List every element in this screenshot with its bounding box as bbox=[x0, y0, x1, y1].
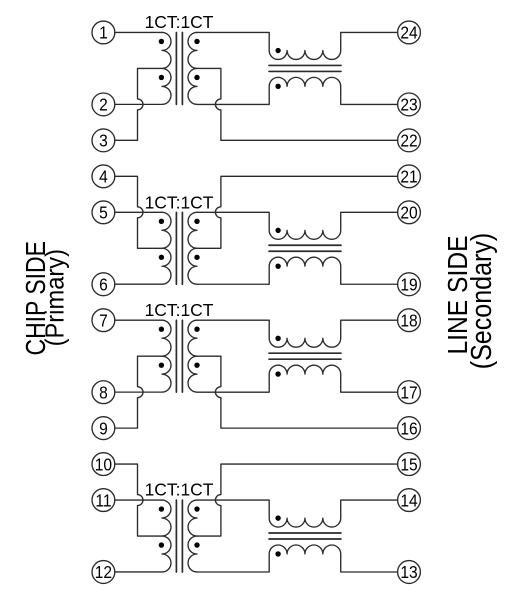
wire primary center tap to pin 3 (hop over pin 2 wire) bbox=[115, 68, 162, 140]
pin 4 bbox=[92, 165, 115, 188]
polarity dot CM2 bottom winding bbox=[275, 263, 280, 268]
svg-text:18: 18 bbox=[400, 311, 417, 331]
svg-text:1CT:1CT: 1CT:1CT bbox=[145, 192, 214, 212]
wire pin 21 to secondary center tap (hop over choke wire) bbox=[197, 176, 398, 248]
polarity dot T1 secondary upper bbox=[194, 39, 199, 44]
wire pin 4 to primary center tap (hop over pin 5 wire) bbox=[115, 176, 162, 248]
choke CM1 top winding with wires to pin 24 bbox=[197, 32, 398, 59]
pin 19 bbox=[398, 273, 421, 296]
svg-text:8: 8 bbox=[99, 383, 108, 403]
svg-text:10: 10 bbox=[95, 454, 112, 474]
polarity dot CM4 top winding bbox=[275, 515, 280, 520]
polarity dot CM3 bottom winding bbox=[275, 371, 280, 376]
svg-text:14: 14 bbox=[400, 490, 417, 510]
polarity dot T1 secondary lower bbox=[194, 75, 199, 80]
transformer T2 primary winding bbox=[115, 212, 171, 284]
polarity dot CM4 bottom winding bbox=[275, 551, 280, 556]
transformer T4 core bbox=[176, 500, 182, 572]
wire primary center tap to pin 9 (hop over pin 8 wire) bbox=[115, 356, 162, 428]
polarity dot T3 primary upper bbox=[159, 327, 164, 332]
wire pin 10 to primary center tap (hop over pin 11 wire) bbox=[115, 464, 162, 536]
svg-text:6: 6 bbox=[99, 275, 108, 295]
polarity dot CM3 top winding bbox=[275, 336, 280, 341]
pin 12 bbox=[92, 561, 115, 584]
pin 24 bbox=[398, 21, 421, 44]
polarity dot CM2 top winding bbox=[275, 228, 280, 233]
choke CM2 bottom winding with wires to pin 19 bbox=[197, 257, 398, 284]
svg-text:1CT:1CT: 1CT:1CT bbox=[145, 12, 214, 32]
svg-text:13: 13 bbox=[400, 562, 417, 582]
choke CM3 top winding with wires to pin 18 bbox=[197, 320, 398, 347]
wire pin 1 to T1 primary top bbox=[115, 31, 162, 33]
svg-text:1CT:1CT: 1CT:1CT bbox=[145, 480, 214, 500]
pin 8 bbox=[92, 381, 115, 404]
svg-text:(Secondary): (Secondary) bbox=[466, 233, 498, 370]
svg-text:4: 4 bbox=[99, 167, 108, 187]
polarity dot T4 secondary upper bbox=[194, 506, 199, 511]
svg-text:15: 15 bbox=[400, 454, 417, 474]
polarity dot T3 secondary upper bbox=[194, 327, 199, 332]
svg-text:19: 19 bbox=[400, 275, 417, 295]
polarity dot CM1 bottom winding bbox=[275, 84, 280, 89]
svg-text:7: 7 bbox=[99, 311, 108, 331]
choke CM1 core bbox=[269, 65, 341, 71]
pin 17 bbox=[398, 381, 421, 404]
svg-text:16: 16 bbox=[400, 418, 417, 438]
pin 18 bbox=[398, 309, 421, 332]
transformer T4 secondary winding bbox=[188, 500, 197, 572]
wire secondary center tap to pin 16 (hop over pin 17 wire) bbox=[197, 356, 398, 428]
wire secondary center tap to pin 22 (hop over pin 23 wire) bbox=[197, 68, 398, 140]
pin 3 bbox=[92, 129, 115, 152]
pin 9 bbox=[92, 417, 115, 440]
svg-text:9: 9 bbox=[99, 418, 108, 438]
pin 15 bbox=[398, 453, 421, 476]
transformer T3 secondary winding bbox=[188, 320, 197, 392]
pin 13 bbox=[398, 561, 421, 584]
pin 11 bbox=[92, 489, 115, 512]
pin 1 bbox=[92, 21, 115, 44]
transformer T4 primary winding bbox=[115, 500, 171, 572]
polarity dot T4 secondary lower bbox=[194, 542, 199, 547]
choke CM2 top winding with wires to pin 20 bbox=[197, 212, 398, 239]
pin 2 bbox=[92, 93, 115, 116]
svg-text:23: 23 bbox=[400, 95, 417, 115]
transformer T3 primary winding bbox=[115, 320, 171, 392]
svg-text:21: 21 bbox=[400, 167, 417, 187]
polarity dot T3 secondary lower bbox=[194, 362, 199, 367]
pin 16 bbox=[398, 417, 421, 440]
polarity dot T2 primary upper bbox=[159, 219, 164, 224]
wire pin 5 to T2 primary top bbox=[115, 211, 162, 213]
svg-text:17: 17 bbox=[400, 383, 417, 403]
svg-text:(Primary): (Primary) bbox=[42, 249, 70, 346]
choke CM3 core bbox=[269, 353, 341, 359]
transformer T1 secondary winding bbox=[188, 32, 197, 104]
pin 23 bbox=[398, 93, 421, 116]
pin 20 bbox=[398, 201, 421, 224]
polarity dot T4 primary upper bbox=[159, 506, 164, 511]
pin 5 bbox=[92, 201, 115, 224]
transformer T3 core bbox=[176, 320, 182, 392]
svg-text:1CT:1CT: 1CT:1CT bbox=[145, 300, 214, 320]
pin 21 bbox=[398, 165, 421, 188]
polarity dot T1 primary upper bbox=[159, 39, 164, 44]
pin 6 bbox=[92, 273, 115, 296]
transformer T2 secondary winding bbox=[188, 212, 197, 284]
choke CM2 core bbox=[269, 245, 341, 251]
pin 22 bbox=[398, 129, 421, 152]
polarity dot T1 primary lower bbox=[159, 75, 164, 80]
transformer T1 core bbox=[176, 32, 182, 104]
pin 10 bbox=[92, 453, 115, 476]
polarity dot T2 secondary lower bbox=[194, 255, 199, 260]
polarity dot T2 primary lower bbox=[159, 255, 164, 260]
svg-text:24: 24 bbox=[400, 23, 417, 43]
choke CM3 bottom winding with wires to pin 17 bbox=[197, 365, 398, 392]
svg-text:3: 3 bbox=[99, 131, 108, 151]
polarity dot T2 secondary upper bbox=[194, 219, 199, 224]
transformer T1 primary winding bbox=[115, 32, 171, 104]
svg-text:11: 11 bbox=[95, 490, 111, 510]
svg-text:5: 5 bbox=[99, 203, 108, 223]
svg-text:1: 1 bbox=[99, 23, 108, 43]
choke CM4 top winding with wires to pin 14 bbox=[197, 500, 398, 527]
choke CM4 bottom winding with wires to pin 13 bbox=[197, 545, 398, 572]
svg-text:20: 20 bbox=[400, 203, 417, 223]
svg-text:2: 2 bbox=[99, 95, 108, 115]
wire pin 15 to secondary center tap (hop over choke wire) bbox=[197, 464, 398, 536]
choke CM1 bottom winding with wires to pin 23 bbox=[197, 77, 398, 104]
polarity dot T4 primary lower bbox=[159, 542, 164, 547]
wire pin 11 to T4 primary top bbox=[115, 499, 162, 501]
wire pin 7 to T3 primary top bbox=[115, 319, 162, 321]
pin 14 bbox=[398, 489, 421, 512]
svg-text:12: 12 bbox=[95, 562, 112, 582]
polarity dot CM1 top winding bbox=[275, 48, 280, 53]
transformer T2 core bbox=[176, 212, 182, 284]
choke CM4 core bbox=[269, 533, 341, 539]
pin 7 bbox=[92, 309, 115, 332]
svg-text:22: 22 bbox=[400, 131, 417, 151]
polarity dot T3 primary lower bbox=[159, 362, 164, 367]
